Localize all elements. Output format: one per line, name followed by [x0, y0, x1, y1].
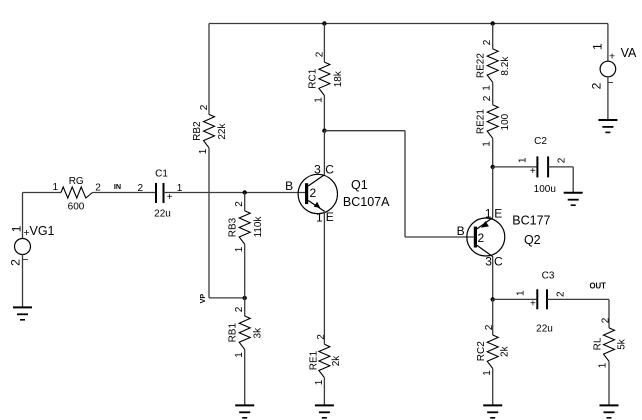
wire: collector node horizontal: [324, 130, 405, 132]
wire: C2 to corner: [548, 166, 573, 168]
node: Q1 collector node: [322, 129, 326, 133]
wire: RB2 upper lead: [208, 24, 210, 115]
svg-text:RB3: RB3: [228, 217, 239, 237]
svg-text:OUT: OUT: [589, 282, 606, 291]
wire: RC1 upper lead: [323, 24, 325, 63]
svg-text:+: +: [530, 299, 536, 310]
wire: junction down to Q2 emitter: [492, 167, 494, 218]
ground for C2: [564, 193, 583, 205]
resistor RE1: [319, 344, 330, 377]
svg-text:2: 2: [590, 82, 604, 89]
wire: RG to C1: [93, 192, 157, 194]
svg-text:2: 2: [309, 186, 316, 200]
wire: Q2 collector down to node: [492, 257, 494, 300]
svg-text:2: 2: [478, 231, 485, 245]
svg-text:110k: 110k: [253, 216, 264, 238]
node: rail junction to RC1: [322, 21, 326, 25]
svg-text:1: 1: [598, 362, 609, 368]
svg-text:2: 2: [8, 259, 22, 266]
svg-text:RC1: RC1: [307, 68, 318, 88]
svg-text:1: 1: [234, 352, 245, 358]
wire: VG1 bottom lead: [22, 254, 24, 307]
svg-text:1: 1: [316, 210, 323, 224]
wire: collector node to Q1: [323, 131, 325, 175]
svg-text:22u: 22u: [536, 324, 553, 335]
resistor RG: [61, 187, 93, 198]
wire: Q1 emitter to RE1: [323, 211, 325, 344]
svg-text:1: 1: [9, 225, 23, 232]
svg-text:2: 2: [557, 157, 568, 163]
svg-text:E: E: [494, 206, 502, 220]
svg-text:+: +: [609, 50, 615, 62]
resistor RC2: [487, 335, 498, 368]
wire: corner down to RL: [608, 299, 610, 328]
svg-text:RB2: RB2: [192, 121, 203, 141]
resistor RE21: [487, 105, 498, 138]
wire: RE1 to ground: [323, 378, 325, 406]
capacitor C3: [537, 289, 547, 309]
svg-text:C3: C3: [542, 271, 555, 282]
svg-text:18k: 18k: [333, 70, 344, 87]
svg-text:2k: 2k: [500, 345, 511, 357]
svg-text:2: 2: [316, 334, 327, 340]
wire: RB2 lower lead down to VP: [208, 148, 210, 298]
svg-text:B: B: [457, 224, 465, 238]
resistor RB1: [239, 316, 250, 349]
svg-text:2: 2: [138, 183, 144, 194]
svg-text:3: 3: [485, 255, 492, 269]
transistor Q1 BC107A: [298, 174, 337, 213]
svg-text:3: 3: [314, 163, 321, 177]
svg-text:RE22: RE22: [476, 53, 487, 78]
wire: RC1 lower lead: [323, 95, 325, 130]
svg-text:22u: 22u: [154, 208, 171, 219]
svg-text:2: 2: [484, 324, 495, 330]
resistor RB2: [204, 114, 215, 147]
svg-text:1: 1: [485, 207, 492, 221]
svg-text:B: B: [285, 179, 293, 193]
wire: junction to C2: [493, 166, 538, 168]
svg-text:RE1: RE1: [308, 350, 319, 370]
svg-text:E: E: [326, 210, 334, 224]
resistor RB3: [239, 211, 250, 244]
svg-text:8.2k: 8.2k: [500, 56, 511, 76]
wire: corner down to ground: [572, 167, 574, 193]
wire: RB1 upper lead: [244, 298, 246, 316]
svg-text:VG1: VG1: [29, 224, 54, 238]
svg-text:600: 600: [68, 202, 85, 213]
svg-text:C2: C2: [534, 136, 547, 147]
svg-text:1: 1: [314, 379, 325, 385]
svg-text:RE21: RE21: [476, 109, 487, 134]
ground for RE1: [315, 405, 334, 417]
svg-text:2: 2: [482, 39, 493, 45]
node: base junction with RB3: [243, 190, 247, 194]
wire: C3 to corner (OUT): [547, 298, 609, 300]
svg-text:2k: 2k: [331, 355, 342, 367]
wire: VG1 top lead: [22, 193, 24, 239]
wire: RB1 lower lead to ground: [244, 349, 246, 405]
node: Q2 collector / C3 junction: [491, 297, 495, 301]
svg-text:2: 2: [234, 201, 245, 207]
svg-text:C: C: [494, 255, 503, 269]
wire: RE22 upper lead: [492, 24, 494, 49]
svg-text:1: 1: [515, 290, 526, 296]
wire: VA bottom lead: [607, 77, 609, 120]
svg-text:1: 1: [517, 157, 528, 163]
wire: C1 to Q1 base: [164, 192, 306, 194]
voltage source VG1: [15, 239, 31, 255]
wire: RB3 upper lead: [244, 193, 246, 211]
ground for RL: [600, 405, 619, 417]
wire: RC2 upper lead: [492, 299, 494, 335]
resistor RC1: [319, 62, 330, 95]
svg-text:22k: 22k: [217, 123, 228, 140]
wire: RE21 lower lead: [492, 138, 494, 167]
capacitor C1: [156, 183, 164, 203]
ground for VA: [598, 120, 617, 132]
node: rail junction to RE22: [491, 21, 495, 25]
svg-text:VA: VA: [621, 46, 637, 60]
wire: horizontal to Q2 base: [405, 236, 474, 238]
svg-text:+: +: [167, 192, 173, 203]
svg-text:2: 2: [199, 104, 210, 110]
wire: VA top lead: [607, 24, 609, 62]
svg-text:1: 1: [591, 43, 605, 50]
wire: VG1 to RG: [23, 192, 62, 194]
resistor RL: [604, 328, 615, 361]
node: VP junction: [243, 296, 247, 300]
svg-text:−: −: [22, 254, 28, 266]
wire: vertical down to Q2 base level: [404, 131, 406, 237]
svg-text:1: 1: [482, 370, 493, 376]
svg-text:2: 2: [601, 317, 612, 323]
svg-text:1: 1: [482, 85, 493, 91]
svg-text:RC2: RC2: [476, 341, 487, 361]
wire: VP horizontal: [209, 297, 245, 299]
wire: node to C3: [493, 298, 538, 300]
svg-text:RL: RL: [593, 337, 604, 350]
svg-text:1: 1: [198, 148, 209, 154]
svg-text:Q2: Q2: [524, 233, 541, 247]
svg-text:1: 1: [482, 141, 493, 147]
svg-text:C: C: [325, 163, 334, 177]
svg-text:C1: C1: [155, 169, 168, 180]
svg-text:BC177: BC177: [512, 213, 550, 227]
wire: top supply rail: [209, 23, 608, 25]
svg-text:2: 2: [556, 291, 567, 297]
svg-text:RB1: RB1: [228, 323, 239, 343]
wire: RL to ground: [608, 361, 610, 405]
svg-text:1: 1: [313, 97, 324, 103]
svg-text:BC107A: BC107A: [343, 195, 390, 209]
svg-text:5k: 5k: [617, 338, 628, 350]
ground for RB1: [235, 405, 254, 417]
svg-text:1: 1: [234, 246, 245, 252]
wire: RC2 to ground: [492, 368, 494, 405]
svg-text:100u: 100u: [534, 184, 556, 195]
svg-text:1: 1: [53, 182, 59, 193]
svg-text:+: +: [530, 166, 536, 177]
svg-text:Q1: Q1: [351, 178, 368, 192]
capacitor C2: [537, 156, 548, 177]
ground for RC2: [483, 405, 502, 417]
wire: RB3 lower lead to VP: [244, 244, 246, 298]
ground for VG1: [13, 307, 32, 319]
svg-text:3k: 3k: [253, 327, 264, 339]
svg-text:2: 2: [95, 182, 101, 193]
svg-text:IN: IN: [114, 182, 121, 191]
transistor Q2 BC177: [467, 218, 505, 257]
resistor RE22: [487, 49, 498, 82]
svg-text:100: 100: [500, 113, 511, 130]
voltage source VA: [600, 61, 616, 77]
svg-text:2: 2: [234, 306, 245, 312]
svg-text:VP: VP: [198, 294, 207, 304]
node: Q2 emitter / C2 junction: [491, 165, 495, 169]
svg-text:2: 2: [314, 51, 325, 57]
svg-text:2: 2: [482, 95, 493, 101]
wire: RE22-RE21 lead: [492, 82, 494, 105]
svg-text:RG: RG: [69, 176, 84, 187]
